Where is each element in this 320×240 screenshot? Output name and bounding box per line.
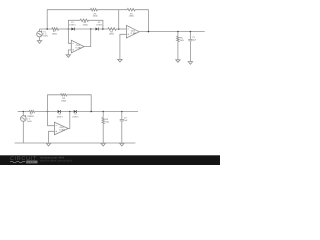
- wire: node A2 down to OA3 inverting input: [48, 112, 55, 126]
- op-amp OA1: [71, 40, 84, 53]
- ground (R8): [101, 143, 105, 146]
- wire: OA3 non-inverting input down to ground rail: [49, 131, 55, 143]
- node: input junction: [46, 28, 48, 30]
- wire: R1 to node A: [59, 28, 71, 30]
- ground (V1): [37, 41, 41, 44]
- wire: tap down to OA3 output: [68, 112, 70, 129]
- wire: D1 to D2 with output tap: [75, 28, 95, 30]
- svg-text:10kΩ: 10kΩ: [93, 15, 98, 18]
- svg-text:1kHz: 1kHz: [43, 35, 48, 38]
- voltage source V1: [37, 29, 48, 40]
- svg-text:1kHz: 1kHz: [27, 120, 32, 123]
- node B: [102, 28, 104, 30]
- wire: tap down to OA1 output: [84, 29, 91, 47]
- wire: node C riser: [118, 10, 120, 29]
- ground (OA1 +): [66, 55, 70, 58]
- node J2: [69, 111, 71, 113]
- svg-text:1kΩ: 1kΩ: [180, 39, 184, 42]
- svg-text:1N914: 1N914: [72, 115, 79, 118]
- svg-text:TL082: TL082: [75, 47, 82, 50]
- node: C1 tap: [190, 31, 192, 33]
- resistor R3: [108, 28, 116, 31]
- svg-text:10kΩ: 10kΩ: [83, 23, 88, 26]
- op-amp OA2: [126, 25, 139, 38]
- node: R8 tap: [102, 111, 104, 113]
- resistor R2: [80, 19, 89, 22]
- resistor R7: [29, 110, 35, 112]
- resistor R4: [127, 8, 135, 11]
- CircuitLab logo: [10, 156, 38, 164]
- ground (OA3 +): [46, 143, 50, 146]
- node C with riser to top rail: [118, 28, 120, 30]
- wire: OA2 non-inverting input to ground: [120, 34, 127, 59]
- ground (C1): [188, 62, 192, 65]
- wire: node A down to OA1 inverting input: [68, 29, 71, 43]
- node B2: [90, 111, 92, 113]
- watermark bar: [0, 155, 220, 165]
- wire: OA1 non-inverting input to ground: [68, 50, 71, 55]
- svg-text:TL082: TL082: [130, 32, 137, 35]
- svg-text:10kΩ: 10kΩ: [109, 33, 114, 36]
- resistor R9: [61, 94, 67, 96]
- svg-text:1kΩ: 1kΩ: [105, 120, 109, 123]
- wire: R2 branch: [68, 20, 103, 29]
- svg-text:1N914: 1N914: [69, 24, 76, 27]
- wire: main input wire V1 to node A: [40, 28, 52, 30]
- node A: [68, 28, 70, 30]
- resistor R6 (vertical): [177, 32, 179, 37]
- ground (OA2 +): [118, 59, 122, 62]
- svg-text:10kΩ: 10kΩ: [52, 32, 57, 35]
- wire: OA2 output rail: [139, 31, 205, 33]
- svg-text:10kΩ: 10kΩ: [129, 15, 134, 18]
- wire: R3 to OA2 inverting input: [116, 28, 126, 30]
- wire: R9 feedback branch: [48, 95, 92, 112]
- op-amp OA3: [54, 122, 68, 135]
- node A2: [47, 111, 49, 113]
- svg-text:10kΩ: 10kΩ: [61, 99, 66, 102]
- ground (R6): [176, 60, 180, 63]
- wire: top feedback rail from input riser to OA2 output riser: [47, 10, 148, 32]
- node: R4 feedback junction: [148, 31, 150, 33]
- wire: input stub and main wire: [18, 111, 29, 113]
- svg-text:1N914: 1N914: [96, 24, 103, 27]
- wire: D3 to D4 with output tap: [60, 111, 73, 113]
- node: V2 junction: [23, 111, 25, 113]
- ground (C2): [120, 143, 124, 146]
- capacitor C2: [121, 112, 123, 120]
- diode D3: [58, 110, 61, 113]
- diode D4: [74, 110, 77, 113]
- wire: bottom ground rail: [15, 142, 136, 144]
- node: C2 tap: [121, 111, 123, 113]
- wire: R7 to node A2: [35, 111, 57, 113]
- node J (OA1 output tap): [90, 28, 92, 30]
- svg-text:LAB: LAB: [28, 161, 35, 164]
- resistor R1: [52, 28, 59, 31]
- resistor R8 (vertical): [102, 112, 104, 118]
- svg-text:TL082: TL082: [59, 129, 66, 132]
- diode D2: [95, 28, 98, 31]
- voltage source V2: [21, 112, 32, 144]
- diode D1: [71, 28, 75, 30]
- node: R6 tap: [177, 31, 179, 33]
- svg-text:10kΩ: 10kΩ: [29, 115, 34, 118]
- resistor R5: [90, 8, 97, 11]
- svg-text:1N914: 1N914: [57, 115, 64, 118]
- svg-text:http:∕∕circuitlab.com∕c∕p6ycy6: http:∕∕circuitlab.com∕c∕p6ycy6: [40, 159, 73, 162]
- capacitor C1: [189, 32, 191, 40]
